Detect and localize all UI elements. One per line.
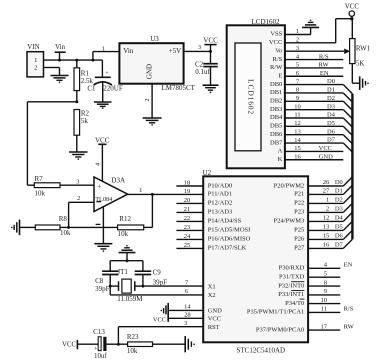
svg-text:K: K xyxy=(278,156,283,163)
svg-text:9: 9 xyxy=(324,288,327,295)
U2 pin 7 X1 xyxy=(143,279,216,290)
svg-text:D0: D0 xyxy=(327,78,335,85)
svg-text:P23: P23 xyxy=(294,209,304,216)
capacitor C8 39pF xyxy=(95,271,118,295)
svg-text:P32/INT0: P32/INT0 xyxy=(278,282,304,289)
svg-text:12: 12 xyxy=(294,120,301,127)
svg-text:JT1: JT1 xyxy=(117,268,128,276)
svg-text:D2: D2 xyxy=(335,197,343,204)
U2 pin 9 P33/INT1 xyxy=(278,288,340,298)
U2 pin 20 P12/AD2 xyxy=(176,197,232,207)
crystal JT1 11.059M xyxy=(110,268,143,303)
svg-text:RW1: RW1 xyxy=(356,44,371,52)
wire bus entry D7 from U2 xyxy=(343,239,352,248)
svg-text:C13: C13 xyxy=(93,328,105,336)
svg-text:17: 17 xyxy=(321,323,328,330)
MCU U2 STC12C5410AD xyxy=(203,169,309,354)
svg-text:4: 4 xyxy=(95,163,102,166)
U2 pin 16 P27 / node D7 xyxy=(294,242,343,252)
wire bus entry D2 from U2 xyxy=(343,194,352,203)
svg-text:+: + xyxy=(97,181,101,190)
svg-text:D7: D7 xyxy=(327,137,336,144)
U2 pin 2 P23 / node D3 xyxy=(294,206,343,216)
svg-text:Vin: Vin xyxy=(123,47,134,55)
svg-text:RW: RW xyxy=(344,323,355,330)
node VCC (LCD side) xyxy=(319,145,332,152)
svg-text:0.1uf: 0.1uf xyxy=(195,68,210,76)
svg-text:P33/INT1: P33/INT1 xyxy=(278,291,304,298)
U2 pin 1 P22 / node D2 xyxy=(294,197,343,207)
svg-text:D5: D5 xyxy=(335,224,343,231)
svg-text:3: 3 xyxy=(198,44,201,51)
LCD pin 2 wire xyxy=(285,37,336,44)
node D5 (LCD side) xyxy=(327,120,335,127)
power flag VCC (rotated) reset xyxy=(62,340,98,349)
svg-text:DB0: DB0 xyxy=(270,81,282,88)
svg-text:P22: P22 xyxy=(294,200,304,207)
power flag VCC op-amp supply pin 4 xyxy=(95,137,110,181)
svg-text:P21: P21 xyxy=(294,191,304,198)
node D0 (LCD side) xyxy=(327,78,335,85)
svg-text:P11/AD1: P11/AD1 xyxy=(208,191,232,198)
svg-text:C1: C1 xyxy=(87,84,96,92)
svg-text:P27: P27 xyxy=(294,245,305,252)
capacitor C13 10uf (polarized) xyxy=(93,328,107,360)
node D7 (LCD side) xyxy=(327,137,336,144)
svg-text:10k: 10k xyxy=(60,229,71,237)
overline INT0 xyxy=(291,281,304,283)
svg-text:D4: D4 xyxy=(335,215,344,222)
LCD pin 13 wire xyxy=(285,128,343,135)
node D4 (LCD side) xyxy=(327,112,336,119)
U2 pin 15 P26 / node D6 xyxy=(294,233,343,243)
svg-text:39pF: 39pF xyxy=(153,278,168,286)
LCD pin 9 wire xyxy=(285,95,343,102)
svg-text:DB6: DB6 xyxy=(270,131,283,138)
U2 pin 24 P16/AD6/MISO xyxy=(176,233,250,243)
node D6 (LCD side) xyxy=(327,128,336,135)
U2 pin 5 P31/TXD xyxy=(279,270,340,280)
svg-text:10k: 10k xyxy=(118,230,129,238)
wire bus entry D1 from U2 xyxy=(343,185,352,194)
svg-text:LCD1602: LCD1602 xyxy=(247,79,256,115)
potentiometer RW1 5K xyxy=(350,19,371,84)
svg-text:STC12C5410AD: STC12C5410AD xyxy=(236,346,285,354)
wire bus entry D3 from LCD xyxy=(343,110,352,119)
svg-text:+: + xyxy=(105,70,109,77)
svg-text:Vo: Vo xyxy=(275,47,282,54)
svg-text:13: 13 xyxy=(323,224,330,231)
svg-text:P17/AD7/SLK: P17/AD7/SLK xyxy=(208,245,247,252)
LCD pin name K xyxy=(278,156,283,163)
svg-text:VCC: VCC xyxy=(203,37,218,45)
svg-text:20: 20 xyxy=(184,197,191,204)
wire feedback rail xyxy=(60,194,152,229)
wire op-amp output pin1 to U2 P11 xyxy=(128,187,204,196)
LCD pin 15 wire xyxy=(285,145,343,152)
LCD pin 16 wire xyxy=(285,153,343,160)
ground xyxy=(51,76,69,84)
U2 pin 23 P15/AD5/MOSI xyxy=(176,224,250,234)
svg-text:28: 28 xyxy=(184,312,191,319)
svg-text:5: 5 xyxy=(296,62,299,69)
svg-text:10k: 10k xyxy=(35,190,46,198)
svg-text:3: 3 xyxy=(76,179,79,186)
svg-text:18: 18 xyxy=(184,180,191,187)
node EN (LCD side) xyxy=(320,70,329,77)
svg-text:DB3: DB3 xyxy=(270,106,282,113)
svg-text:P24/PWM3: P24/PWM3 xyxy=(274,218,305,225)
wire bus entry D2 from LCD xyxy=(343,101,352,110)
svg-text:15: 15 xyxy=(294,145,301,152)
U2 pin 4 P30/RXD xyxy=(279,262,353,272)
svg-text:D7: D7 xyxy=(335,242,344,249)
U2 pin 21 P13/AD3 xyxy=(176,206,232,216)
svg-text:26: 26 xyxy=(323,179,330,186)
svg-text:D1: D1 xyxy=(335,188,343,195)
ground xyxy=(94,244,112,252)
svg-text:D6: D6 xyxy=(335,233,344,240)
U2 pin 6 X2 xyxy=(110,288,215,299)
svg-text:EN: EN xyxy=(320,70,329,77)
svg-text:11: 11 xyxy=(321,306,327,313)
ground (inverted) on LCD pin1 VSS xyxy=(302,20,319,35)
svg-text:GND: GND xyxy=(319,154,333,161)
wire R7 to op-amp pin3 xyxy=(27,179,94,186)
svg-text:11.059M: 11.059M xyxy=(117,295,143,303)
svg-text:D0: D0 xyxy=(335,179,343,186)
ground xyxy=(69,152,87,160)
ground xyxy=(143,118,162,126)
svg-text:R23: R23 xyxy=(127,333,139,341)
LCD pin 6 wire xyxy=(285,70,343,77)
svg-text:D3A: D3A xyxy=(111,176,125,184)
svg-text:220UF: 220UF xyxy=(103,84,123,92)
svg-text:DB4: DB4 xyxy=(270,114,283,121)
resistor R2 xyxy=(74,109,90,152)
svg-text:LCD1602: LCD1602 xyxy=(252,18,281,26)
svg-text:TL084: TL084 xyxy=(95,196,113,203)
capacitor C9 39pF xyxy=(135,269,167,288)
svg-text:15: 15 xyxy=(323,233,330,240)
U2 pin 8 P32/INT0 xyxy=(278,279,340,289)
svg-text:DB7: DB7 xyxy=(270,139,283,146)
svg-text:Vin: Vin xyxy=(55,43,66,51)
svg-text:X2: X2 xyxy=(208,292,216,299)
svg-text:D2: D2 xyxy=(327,95,335,102)
LCD pin 11 wire xyxy=(285,112,343,119)
LCD pin 5 wire xyxy=(285,62,343,69)
power VCC node with circle xyxy=(345,2,360,20)
U2 pin 22 P14/AD4/SS xyxy=(176,215,241,225)
wire bus entry D5 from U2 xyxy=(343,221,352,230)
resistor R1 xyxy=(74,60,94,102)
LCD pin name E xyxy=(278,72,282,79)
node D1 (LCD side) xyxy=(327,87,335,94)
svg-text:2: 2 xyxy=(296,37,299,44)
svg-text:E: E xyxy=(278,72,282,79)
wire node to U3 pin1 xyxy=(93,45,120,60)
svg-text:9: 9 xyxy=(296,95,299,102)
LCD pin name DB3 xyxy=(270,106,282,113)
svg-text:5K: 5K xyxy=(356,59,365,67)
svg-text:39pF: 39pF xyxy=(95,285,110,293)
svg-text:P20/PWM2: P20/PWM2 xyxy=(274,182,305,189)
op-amp negative supply to ground xyxy=(102,206,104,243)
resistor R12 xyxy=(118,215,144,238)
svg-text:EN: EN xyxy=(344,262,353,269)
overline INT1 xyxy=(291,290,304,292)
svg-text:R/W: R/W xyxy=(270,64,283,71)
svg-text:2: 2 xyxy=(77,195,80,202)
svg-text:16: 16 xyxy=(323,242,330,249)
svg-text:C9: C9 xyxy=(153,269,162,277)
svg-text:+5V: +5V xyxy=(169,47,182,55)
svg-text:R7: R7 xyxy=(35,175,44,183)
svg-text:R1: R1 xyxy=(81,69,90,77)
svg-text:P15/AD5/MOSI: P15/AD5/MOSI xyxy=(208,227,251,234)
wire LCD pin2 VCC to VCC node xyxy=(336,19,352,43)
node A junction R1/R2 xyxy=(27,100,78,185)
wire op-amp pin2 input xyxy=(69,195,94,227)
svg-text:P30/RXD: P30/RXD xyxy=(279,265,305,272)
svg-text:P26: P26 xyxy=(294,236,305,243)
svg-text:P31/TXD: P31/TXD xyxy=(279,274,305,281)
U2 pin 25 P17/AD7/SLK xyxy=(176,242,246,252)
wire R23 to ground xyxy=(153,343,186,345)
power flag Vin xyxy=(55,43,66,60)
svg-text:P13/AD3: P13/AD3 xyxy=(208,209,233,216)
svg-text:U3: U3 xyxy=(150,35,159,43)
capacitor C1 220UF xyxy=(87,60,122,102)
svg-text:R12: R12 xyxy=(119,215,131,223)
svg-text:VCC: VCC xyxy=(208,316,221,323)
svg-text:2: 2 xyxy=(34,65,37,72)
svg-text:RST: RST xyxy=(208,324,220,331)
svg-text:P12/AD2: P12/AD2 xyxy=(208,200,233,207)
svg-text:D1: D1 xyxy=(327,87,335,94)
LCD pin 7 wire xyxy=(285,78,343,85)
svg-text:DB1: DB1 xyxy=(270,89,282,96)
node R/S (LCD side) xyxy=(319,53,329,60)
LCD pin name R/W xyxy=(270,64,283,71)
wire U3 pin3 to VCC node xyxy=(184,44,212,53)
LCD pin name DB6 xyxy=(270,131,283,138)
svg-text:19: 19 xyxy=(184,188,191,195)
svg-text:D4: D4 xyxy=(327,112,336,119)
U2 pin 18 P10/AD0 xyxy=(176,180,232,190)
U3 pin2 to ground xyxy=(145,84,152,118)
svg-text:P25: P25 xyxy=(294,227,304,234)
power flag VCC at U3 output xyxy=(203,37,218,52)
ground (inverted) crystal top xyxy=(119,245,136,261)
U2 pin 27 P21 / node D1 xyxy=(294,188,343,198)
svg-text:R8: R8 xyxy=(59,215,68,223)
svg-text:2: 2 xyxy=(145,99,151,102)
ground rotated (left) xyxy=(11,220,20,236)
svg-text:10: 10 xyxy=(294,103,301,110)
connector VIN xyxy=(27,43,44,77)
node D2 (LCD side) xyxy=(327,95,335,102)
ground rotated (right) for RW1 xyxy=(360,76,369,90)
U2 pin 10 P34/T0 xyxy=(285,297,340,307)
svg-text:DB2: DB2 xyxy=(270,98,282,105)
svg-text:R2: R2 xyxy=(81,109,90,117)
svg-text:VCC: VCC xyxy=(153,317,166,324)
svg-text:8: 8 xyxy=(296,87,299,94)
svg-text:RW: RW xyxy=(318,62,329,69)
LCD pin name DB2 xyxy=(270,98,282,105)
wire bus entry D5 from LCD xyxy=(343,126,352,135)
svg-text:VCC: VCC xyxy=(95,137,110,145)
svg-text:P14/AD4/SS: P14/AD4/SS xyxy=(208,218,242,225)
svg-text:1: 1 xyxy=(326,197,329,204)
ground rotated + VCC bar for pins 14/28 xyxy=(153,303,168,324)
LCD pin name DB5 xyxy=(270,123,282,130)
svg-text:R/S: R/S xyxy=(273,56,283,63)
arrow LCD pin3 Vo wiper xyxy=(344,49,350,55)
wire bus entry D0 from U2 xyxy=(343,177,352,186)
svg-text:D6: D6 xyxy=(327,128,336,135)
node RW (LCD side) xyxy=(318,62,329,69)
minus mark xyxy=(96,223,101,225)
svg-text:R/S: R/S xyxy=(344,306,354,313)
resistor R8 xyxy=(20,215,72,237)
svg-text:23: 23 xyxy=(184,224,191,231)
svg-text:11: 11 xyxy=(294,112,300,119)
wire bus entry D1 from LCD xyxy=(343,93,352,102)
svg-text:VCC: VCC xyxy=(319,145,332,152)
U2 pin 26 P20/PWM2 / node D0 xyxy=(274,179,344,189)
svg-text:1: 1 xyxy=(296,28,299,35)
U2 pin 17 P37/PWM0/PCA0 xyxy=(256,323,355,333)
LCD pin 1 wire xyxy=(285,28,311,35)
svg-text:D3: D3 xyxy=(327,103,335,110)
svg-text:14: 14 xyxy=(294,137,301,144)
svg-text:13: 13 xyxy=(294,128,301,135)
svg-text:DB5: DB5 xyxy=(270,123,282,130)
svg-text:P16/AD6/MISO: P16/AD6/MISO xyxy=(208,236,251,243)
LCD pin name DB0 xyxy=(270,81,282,88)
U2 pin 12 P24/PWM3 / node D4 xyxy=(274,215,344,225)
node D3 (LCD side) xyxy=(327,103,335,110)
svg-text:VIN: VIN xyxy=(27,43,39,51)
svg-text:5: 5 xyxy=(324,270,327,277)
svg-text:3: 3 xyxy=(184,320,187,327)
svg-text:D5: D5 xyxy=(327,120,335,127)
svg-text:LM7805CT: LM7805CT xyxy=(162,84,196,92)
LCD pin name DB4 xyxy=(270,114,283,121)
wire C13 to R23 and RST xyxy=(107,327,128,346)
LCD pin name VCC xyxy=(269,39,282,46)
ground xyxy=(94,102,112,109)
svg-text:25: 25 xyxy=(184,242,191,249)
LCD pin name Vo xyxy=(275,47,282,54)
svg-text:1: 1 xyxy=(102,45,105,52)
svg-text:10: 10 xyxy=(321,297,328,304)
svg-text:16: 16 xyxy=(294,153,301,160)
svg-text:2: 2 xyxy=(326,206,329,213)
LCD pin 12 wire xyxy=(285,120,343,127)
resistor R23 10k xyxy=(127,333,153,355)
svg-text:P35/PWM1/T1/PCA1: P35/PWM1/T1/PCA1 xyxy=(247,309,304,316)
U2 pin 13 P25 / node D5 xyxy=(294,224,343,234)
LCD pin 8 wire xyxy=(285,87,343,94)
svg-text:P37/PWM0/PCA0: P37/PWM0/PCA0 xyxy=(256,326,304,333)
svg-text:1: 1 xyxy=(34,57,37,64)
svg-text:GND: GND xyxy=(208,308,222,315)
wire bus entry D4 from LCD xyxy=(343,118,352,127)
svg-text:VCC: VCC xyxy=(269,39,282,46)
LCD pin name R/S xyxy=(273,56,283,63)
svg-text:X1: X1 xyxy=(208,283,216,290)
LCD pin name A xyxy=(278,148,283,155)
ground xyxy=(203,85,219,93)
resistor R7 xyxy=(34,175,60,197)
op-amp U1 D3A TL084 xyxy=(94,176,128,211)
svg-text:VCC: VCC xyxy=(62,342,76,349)
svg-text:21: 21 xyxy=(184,206,191,213)
svg-text:VSS: VSS xyxy=(270,31,282,38)
LCD pin 14 wire xyxy=(285,137,343,144)
svg-text:A: A xyxy=(278,148,283,155)
wire bus entry D6 from U2 xyxy=(343,230,352,239)
svg-text:24: 24 xyxy=(184,233,191,240)
wire crystal top rail xyxy=(110,259,143,271)
svg-text:5k: 5k xyxy=(81,117,89,125)
wire bus entry D4 from U2 xyxy=(343,212,352,221)
U2 pin 19 P11/AD1 xyxy=(184,188,232,198)
overline T0 xyxy=(300,298,305,300)
wire bus entry D0 from LCD xyxy=(343,85,352,94)
LCD pin name VSS xyxy=(270,31,282,38)
node GND (LCD side) xyxy=(319,154,333,161)
svg-text:8: 8 xyxy=(324,279,327,286)
svg-text:14: 14 xyxy=(184,304,191,311)
wire VIN pin1 to node xyxy=(44,59,103,62)
LCD pin 10 wire xyxy=(285,103,343,110)
capacitor C2 0.1uf xyxy=(195,51,218,85)
ground rotated (right) reset xyxy=(185,336,195,352)
wire VIN pin2 to ground xyxy=(44,68,60,76)
svg-text:R/S: R/S xyxy=(319,53,329,60)
U2 pin 11 P35/PWM1/T1/PCA1 xyxy=(247,306,354,316)
svg-text:1: 1 xyxy=(139,187,142,194)
U2 pin 28 VCC xyxy=(168,312,221,323)
svg-text:27: 27 xyxy=(323,188,330,195)
svg-text:10uf: 10uf xyxy=(94,352,108,360)
svg-text:P34/T0: P34/T0 xyxy=(285,300,304,307)
svg-text:P10/AD0: P10/AD0 xyxy=(208,182,233,189)
wire bus entry D7 from LCD xyxy=(343,143,352,152)
bus vertical xyxy=(351,94,353,240)
LCD pin name DB7 xyxy=(270,139,283,146)
U2 pin 3 RST xyxy=(118,320,219,331)
LCD pin 3 wire xyxy=(285,45,344,52)
svg-text:10k: 10k xyxy=(127,347,138,355)
svg-text:GND: GND xyxy=(146,64,154,79)
svg-text:D3: D3 xyxy=(335,206,343,213)
svg-text:3: 3 xyxy=(296,45,299,52)
U2 pin 14 GND xyxy=(168,304,222,315)
svg-text:VCC: VCC xyxy=(345,2,360,10)
svg-text:12: 12 xyxy=(323,215,330,222)
wire bus entry D6 from LCD xyxy=(343,135,352,144)
regulator U3 LM7805CT xyxy=(119,35,195,92)
LCD pin 4 wire xyxy=(285,53,343,60)
LCD module LCD1602 xyxy=(227,18,285,169)
svg-text:22: 22 xyxy=(184,215,191,222)
